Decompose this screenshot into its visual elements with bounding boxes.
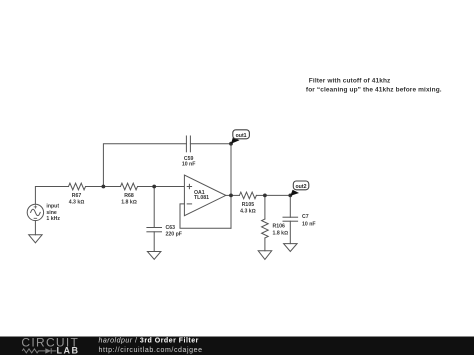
output node junction dot bbox=[229, 194, 233, 198]
logo mini schematic resistor and diode bbox=[22, 348, 56, 353]
svg-text:LAB: LAB bbox=[57, 346, 80, 355]
capacitor C7 bbox=[283, 217, 298, 221]
op-amp OA1 TL081 bbox=[184, 175, 225, 216]
label R106 value bbox=[273, 224, 289, 237]
flag out2 bbox=[290, 181, 309, 196]
svg-text:http://circuitlab.com/cdajgee: http://circuitlab.com/cdajgee bbox=[99, 347, 203, 354]
wire C63 to ground bbox=[153, 232, 155, 252]
wire R67 to node A bbox=[86, 186, 104, 188]
wire node A up to C59 bbox=[103, 144, 186, 187]
capacitor C59 bbox=[186, 136, 190, 152]
svg-text:out1: out1 bbox=[236, 133, 247, 139]
svg-text:R106: R106 bbox=[273, 224, 286, 230]
svg-text:for “cleaning up” the 41khz be: for “cleaning up” the 41khz before mixin… bbox=[304, 87, 442, 94]
wire C59 to node out1 bbox=[190, 143, 231, 145]
svg-text:R68: R68 bbox=[124, 193, 134, 199]
resistor R67 bbox=[69, 183, 86, 190]
svg-text:out2: out2 bbox=[296, 184, 307, 190]
svg-text:1.8 kΩ: 1.8 kΩ bbox=[273, 231, 289, 237]
node out1 junction dot bbox=[229, 142, 233, 146]
wire node C down to R106 bbox=[264, 195, 266, 219]
svg-text:Filter with cutoff of 41khz: Filter with cutoff of 41khz bbox=[309, 78, 391, 85]
label C63 value bbox=[166, 225, 182, 237]
svg-text:sine: sine bbox=[46, 210, 56, 216]
svg-text:10 nF: 10 nF bbox=[182, 162, 196, 168]
label R68 value bbox=[121, 193, 137, 205]
resistor R106 bbox=[262, 219, 269, 238]
label C7 value bbox=[302, 214, 316, 228]
wire R68 to node B bbox=[138, 186, 155, 188]
svg-text:4.3 kΩ: 4.3 kΩ bbox=[240, 208, 256, 214]
flag out1 bbox=[231, 130, 249, 144]
wire vertical out1 node to output node to feedback bbox=[230, 144, 232, 229]
wire source bottom to ground bbox=[34, 221, 36, 235]
svg-text:R67: R67 bbox=[72, 193, 82, 199]
svg-text:1 kHz: 1 kHz bbox=[46, 216, 60, 222]
ground below C7 bbox=[284, 244, 298, 252]
svg-text:R105: R105 bbox=[242, 202, 255, 208]
footer bar bbox=[0, 337, 474, 355]
wire node D down to C7 bbox=[289, 195, 291, 217]
wire node B down to C63 bbox=[153, 187, 155, 228]
label V1 input sine 1 kHz bbox=[46, 204, 60, 223]
ground below source bbox=[29, 235, 42, 243]
capacitor C63 bbox=[147, 228, 162, 232]
annotation text bbox=[304, 78, 442, 94]
svg-text:1.8 kΩ: 1.8 kΩ bbox=[121, 200, 137, 206]
svg-text:4.3 kΩ: 4.3 kΩ bbox=[69, 200, 85, 206]
wire node B to op-amp + input bbox=[154, 186, 184, 188]
wire feedback from - input bbox=[180, 204, 231, 228]
wire source top to R67 bbox=[35, 187, 68, 205]
label R105 value bbox=[240, 202, 256, 214]
voltage source V1 (input sine 1 kHz) bbox=[27, 204, 43, 220]
wire op-amp output to node bbox=[226, 194, 231, 196]
node B junction dot bbox=[152, 185, 156, 189]
label OA1 TL081 bbox=[194, 190, 209, 201]
label R67 value bbox=[69, 193, 85, 205]
resistor R68 bbox=[121, 183, 138, 190]
wire output node to R105 bbox=[231, 194, 239, 196]
wire node A to R68 bbox=[103, 186, 120, 188]
resistor R105 bbox=[239, 192, 256, 199]
wire node C to node D bbox=[265, 194, 290, 196]
node D junction dot bbox=[288, 194, 292, 198]
svg-text:220 pF: 220 pF bbox=[166, 231, 182, 237]
svg-text:10 nF: 10 nF bbox=[302, 222, 316, 228]
wire R105 to node C bbox=[256, 194, 265, 196]
node A junction dot bbox=[102, 185, 106, 189]
svg-text:input: input bbox=[46, 204, 59, 210]
ground below R106 bbox=[258, 251, 272, 260]
svg-text:haroldpur / 3rd Order Filter: haroldpur / 3rd Order Filter bbox=[99, 337, 199, 344]
node C junction dot bbox=[263, 194, 267, 198]
label C59 value bbox=[182, 156, 196, 168]
wire R106 to ground bbox=[264, 238, 266, 251]
wire C7 to ground bbox=[289, 221, 291, 243]
svg-text:TL081: TL081 bbox=[194, 195, 209, 201]
svg-text:C7: C7 bbox=[302, 214, 309, 220]
svg-text:C63: C63 bbox=[166, 225, 176, 231]
ground below C63 bbox=[147, 252, 161, 260]
